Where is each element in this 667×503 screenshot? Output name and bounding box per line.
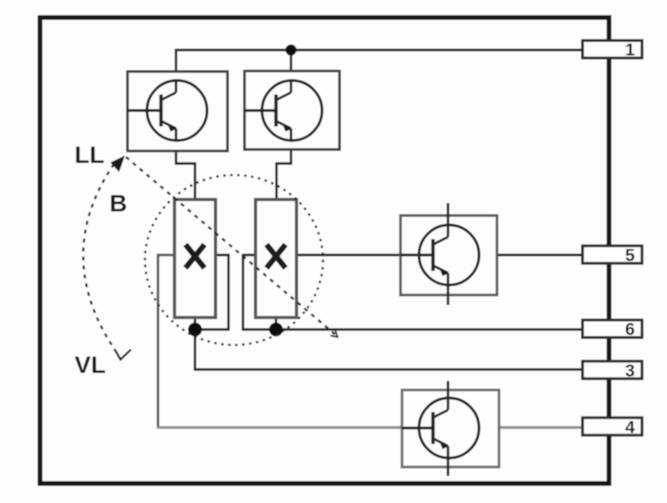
wire R2 left tap to node B [243, 255, 276, 330]
pin 5 [583, 245, 643, 265]
node A junction dot [188, 323, 202, 337]
pin 3 [583, 360, 643, 380]
svg-text:3: 3 [625, 360, 635, 380]
svg-text:1: 1 [625, 40, 635, 60]
transistor Q1 [128, 72, 228, 152]
wire R1 right tap to node A [195, 255, 229, 330]
transistor Q2 [245, 71, 340, 150]
wire node B to pin 6 [276, 318, 583, 330]
svg-text:LL: LL [75, 142, 105, 169]
arrowhead VL [116, 350, 131, 360]
svg-text:6: 6 [625, 319, 635, 339]
wire emitter Q2 to plate R2 [277, 129, 292, 200]
dotted sensor circle [145, 175, 323, 345]
wire Q4 base inside box [402, 426, 433, 429]
wire node A to pin 3 [195, 318, 583, 370]
node B junction dot [269, 323, 283, 337]
field plate R1 [175, 200, 216, 318]
pin 6 [583, 319, 643, 339]
wire R2 right tap to Q3 base [296, 254, 433, 256]
junction dot on Vcc rail [286, 45, 297, 56]
dashed rotation arc LL-VL [83, 164, 119, 356]
wire Vcc top rail to pin 1 [176, 50, 583, 92]
svg-text:B: B [110, 191, 128, 218]
field plate R2 [256, 200, 297, 318]
label X of R2 [267, 245, 286, 269]
wire collector Q2 [290, 50, 292, 93]
wire emitter Q1 to plate R1 [176, 128, 195, 200]
arrowhead LL [111, 156, 126, 173]
svg-text:VL: VL [75, 352, 106, 379]
wire R1 left tap down to Q4 base [158, 255, 175, 428]
dashed flux line B [126, 157, 337, 336]
transistor Q4 [402, 381, 499, 476]
svg-text:4: 4 [625, 417, 635, 437]
pin 1 [583, 40, 643, 60]
arrowhead flux line end [331, 330, 338, 338]
wire Q3 to pin 5 [497, 254, 583, 256]
transistor Q3 [401, 203, 498, 305]
label X of R1 [186, 245, 205, 269]
wire to Q4 base [157, 426, 402, 429]
pin 4 [583, 417, 643, 437]
wire Q4 to pin 4 [499, 426, 583, 429]
svg-text:5: 5 [625, 245, 635, 265]
IC package outline [40, 18, 609, 484]
